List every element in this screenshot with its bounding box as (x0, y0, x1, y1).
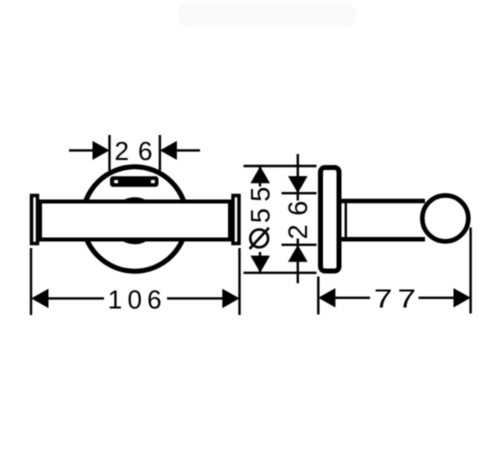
backplate circle (front view) (83, 167, 187, 271)
dim26side tick top (282, 192, 317, 194)
svg-text:26: 26 (115, 136, 162, 166)
hook ball (422, 195, 468, 241)
dim55 extension line top (244, 165, 317, 167)
faint top watermark remnant (178, 4, 356, 27)
dim106 extension line right (238, 248, 240, 315)
inner hub circle (113, 199, 157, 243)
svg-text:106: 106 (108, 284, 167, 314)
dim106 arrow left (31, 289, 48, 308)
dim26side dimension line (297, 154, 299, 283)
dim55 arrow up (250, 166, 270, 183)
hook bar (front view) (40, 202, 230, 240)
svg-text:26: 26 (283, 192, 313, 239)
dim106 line right (167, 297, 223, 299)
dim55 label diameter symbol circle (250, 230, 268, 248)
arm collar line (345, 200, 347, 241)
dim106 arrow right (222, 289, 239, 308)
dim55 extension line bottom (244, 272, 317, 274)
dim26top arrow right (160, 141, 177, 160)
wall plate (side view) (321, 168, 340, 272)
dim77 line left (335, 297, 371, 299)
dim26side arrow down (288, 176, 308, 193)
arm bottom line (341, 237, 425, 242)
dim77 line right (419, 297, 455, 299)
bar right end cap (233, 196, 239, 244)
dim26top tail line right (177, 149, 201, 151)
arm top line (341, 199, 425, 204)
dim77 arrow left (318, 288, 335, 307)
dim26top extension line right (159, 135, 161, 171)
dim106 extension line left (30, 248, 32, 315)
dim26side arrow up (288, 245, 308, 262)
dim77 arrow right (454, 288, 471, 307)
svg-text:77: 77 (374, 285, 421, 314)
dim26top extension line left (108, 135, 110, 171)
dim106 line left (48, 297, 104, 299)
dim55 label diameter symbol slash (250, 228, 269, 249)
dim77 extension line left (317, 277, 319, 315)
slot screw hole left (114, 180, 118, 183)
dim55 arrow down (250, 256, 270, 273)
slot screw hole right (151, 180, 155, 183)
dim55 label background (247, 187, 274, 253)
bar left end cap (32, 196, 38, 244)
mounting slot (110, 176, 159, 187)
dim26side tick bottom (282, 244, 317, 246)
svg-text:55: 55 (246, 180, 276, 223)
dim77 extension line right (469, 228, 471, 314)
dim26top tail line left (69, 149, 93, 151)
dim26top arrow left (93, 141, 110, 160)
dim26side label background (286, 201, 310, 239)
dim55 dimension line (259, 167, 261, 272)
